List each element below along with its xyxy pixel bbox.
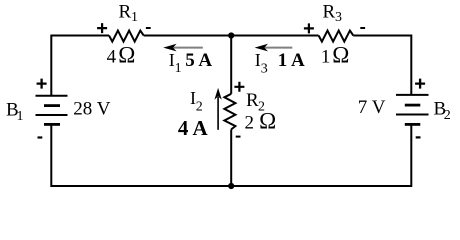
label B2 [434,98,451,123]
wire R2 bottom lead down to node 2 [230,129,232,186]
battery B1 [36,96,68,125]
polarity - of R2 [236,136,241,138]
svg-text:R: R [323,2,336,23]
wire top-left segment (B1+ up and across to R1 left lead) [51,36,109,96]
svg-text:4: 4 [107,47,117,68]
battery B2 [396,95,429,125]
wire node 2 along bottom and up to B1 - plate [51,124,231,186]
resistor R3 [319,31,354,42]
svg-text:Ω: Ω [259,109,276,134]
svg-text:1: 1 [17,109,24,124]
resistor R2 [224,94,235,130]
polarity + of R3 [304,23,314,33]
current arrow I1 (points left) [163,44,203,52]
wire node 1 down to R2 top lead [230,35,232,94]
polarity - of B1 [38,136,43,138]
label R1 [119,2,139,26]
label R3 [323,2,343,26]
current label I1 [169,50,182,76]
polarity + of B2 [415,79,425,89]
svg-text:2: 2 [444,108,451,123]
svg-text:Ω: Ω [332,43,349,68]
svg-text:3: 3 [335,10,342,25]
resistor R1 [109,31,144,42]
svg-text:1: 1 [131,10,138,25]
node 1 junction dot [228,32,234,38]
current label I3 [255,50,268,77]
label B1 [6,100,24,125]
svg-text:28 V: 28 V [73,99,110,120]
wire R1 right lead to node 1 [144,35,232,37]
svg-text:5 A: 5 A [185,50,212,71]
svg-text:7 V: 7 V [358,97,386,118]
node 2 junction dot [228,183,234,189]
current arrow I3 (points left) [255,44,293,52]
svg-text:1: 1 [175,61,182,76]
polarity - of R3 [360,27,365,29]
wire B2 - plate down and along bottom to node 2 [231,124,411,186]
label R2 [246,90,265,114]
svg-text:1: 1 [321,47,331,68]
svg-text:4 A: 4 A [178,116,209,140]
svg-text:2: 2 [245,113,255,134]
polarity + of R2 [234,82,244,92]
svg-text:Ω: Ω [118,43,135,68]
polarity - of R1 [146,27,151,29]
polarity + of B1 [37,79,47,89]
current label I2 [190,88,203,115]
current arrow I2 (points up) [214,88,221,130]
svg-text:2: 2 [196,100,203,115]
wire node 1 to R3 left lead [231,35,318,37]
polarity - of B2 [416,136,421,138]
polarity + of R1 [97,23,107,33]
svg-text:1 A: 1 A [278,50,305,71]
wire R3 right lead down to B2 + plate [353,36,411,95]
svg-text:R: R [119,2,132,23]
svg-text:3: 3 [261,61,268,76]
